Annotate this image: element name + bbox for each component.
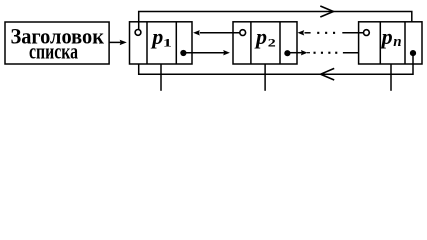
svg-text:p: p	[380, 24, 393, 49]
svg-text:2: 2	[268, 37, 276, 49]
svg-text:1: 1	[163, 37, 172, 49]
svg-text:p: p	[150, 24, 163, 49]
svg-text:n: n	[393, 34, 401, 50]
svg-text:списка: списка	[29, 38, 78, 63]
svg-text:p: p	[254, 24, 267, 49]
